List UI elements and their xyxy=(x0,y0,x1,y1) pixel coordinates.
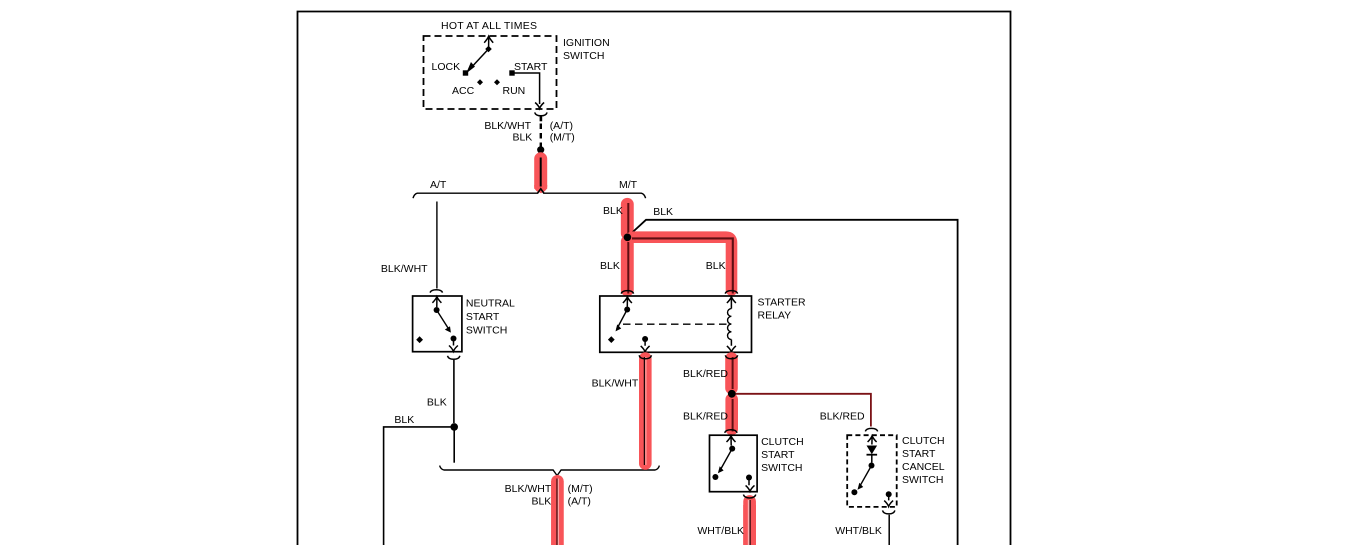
ignition switch wiper arrow to HOT feed xyxy=(469,36,493,69)
relay output wire and arrow down xyxy=(641,339,650,352)
svg-text:BLK/WHT: BLK/WHT xyxy=(505,483,552,495)
connector cup above clutch start switch xyxy=(725,430,737,433)
svg-text:START: START xyxy=(902,448,936,460)
svg-text:BLK/RED: BLK/RED xyxy=(683,410,728,422)
svg-text:CLUTCH: CLUTCH xyxy=(902,435,945,447)
blade arrowhead xyxy=(858,483,864,490)
svg-text:START: START xyxy=(761,449,795,461)
svg-text:START: START xyxy=(514,61,548,73)
output wire arrow down xyxy=(746,478,755,492)
blade end dot xyxy=(851,489,857,495)
connector cup at relay coil terminal xyxy=(725,291,737,294)
wiper arrowhead at LOCK xyxy=(468,64,474,72)
junction dot M/T xyxy=(624,234,632,242)
connector cup below ignition switch xyxy=(535,112,547,115)
svg-text:BLK: BLK xyxy=(427,396,447,408)
wire dashed BLK/WHT below ignition xyxy=(540,124,542,148)
junction dot xyxy=(450,423,458,431)
clutch start switch box xyxy=(710,435,758,492)
svg-text:SWITCH: SWITCH xyxy=(466,325,507,337)
svg-text:WHT/BLK: WHT/BLK xyxy=(835,525,882,537)
relay blade arrowhead xyxy=(616,324,622,331)
junction dot xyxy=(537,146,544,153)
wire red output to starter xyxy=(551,479,564,546)
switch blade xyxy=(437,310,450,331)
blade xyxy=(860,466,872,487)
svg-text:HOT AT ALL TIMES: HOT AT ALL TIMES xyxy=(441,20,537,32)
arrow up inside top xyxy=(432,297,441,307)
svg-text:(M/T): (M/T) xyxy=(550,131,575,143)
bottom terminal dot xyxy=(451,336,457,342)
wire red to starter relay coil xyxy=(632,237,733,293)
svg-text:CANCEL: CANCEL xyxy=(902,461,945,473)
wire BLK/WHT red below relay xyxy=(644,357,646,465)
connector cup below clutch start switch xyxy=(743,495,755,498)
svg-text:RELAY: RELAY xyxy=(758,310,792,322)
wire stub below cup xyxy=(540,116,543,121)
ACC contact xyxy=(477,79,483,85)
svg-text:ACC: ACC xyxy=(452,85,475,97)
svg-text:SWITCH: SWITCH xyxy=(902,474,943,486)
wire BLK/RED jumper to cancel switch xyxy=(736,394,871,427)
arrow up inside xyxy=(727,436,736,446)
wire red highlighted segment below ignition xyxy=(534,158,547,194)
svg-text:LOCK: LOCK xyxy=(432,61,461,73)
svg-text:IGNITION: IGNITION xyxy=(563,37,610,49)
RUN contact xyxy=(494,79,500,85)
relay actuation dashed link xyxy=(623,323,727,325)
clutch start cancel switch box (dashed) xyxy=(847,435,897,507)
svg-text:CLUTCH: CLUTCH xyxy=(761,436,804,448)
connector cup below relay coil xyxy=(725,355,737,359)
blade xyxy=(720,449,732,471)
diode xyxy=(867,446,878,455)
merge brace bottom xyxy=(440,466,660,476)
relay switch arm arrow up xyxy=(623,297,632,307)
border frame xyxy=(298,12,1011,546)
connector cup below relay middle xyxy=(639,355,651,359)
wire WHT/BLK red below clutch switch xyxy=(743,500,756,545)
connector cup above cancel switch xyxy=(865,428,877,431)
wire BLK to left and down xyxy=(384,427,455,545)
wire WHT/BLK below cancel switch xyxy=(888,515,890,545)
blade end dot xyxy=(712,474,718,480)
relay pivot dot xyxy=(624,307,630,313)
svg-text:BLK/WHT: BLK/WHT xyxy=(484,120,531,132)
svg-text:BLK: BLK xyxy=(531,496,551,508)
diamond contact xyxy=(416,336,423,343)
svg-text:START: START xyxy=(466,311,500,323)
svg-text:A/T: A/T xyxy=(430,179,447,191)
wire A/T branch down xyxy=(436,202,438,289)
svg-text:NEUTRAL: NEUTRAL xyxy=(466,297,515,309)
svg-text:BLK: BLK xyxy=(512,131,532,143)
relay diamond contact xyxy=(608,336,615,343)
wire BLK/RED red below relay coil xyxy=(732,357,733,432)
connector cup above neutral start switch xyxy=(430,290,442,293)
connector cup at relay left terminal xyxy=(621,291,633,294)
output terminal dot xyxy=(886,491,892,497)
relay coil xyxy=(727,297,736,309)
svg-text:(M/T): (M/T) xyxy=(568,483,593,495)
relay output terminal dot xyxy=(642,336,648,342)
pivot dot xyxy=(434,307,440,313)
svg-text:M/T: M/T xyxy=(619,179,638,191)
wire BLK thin to right side and down xyxy=(630,220,958,545)
svg-text:WHT/BLK: WHT/BLK xyxy=(697,525,744,537)
svg-text:(A/T): (A/T) xyxy=(550,120,573,132)
LOCK contact xyxy=(463,70,468,75)
neutral start switch box xyxy=(413,296,462,352)
wire to bottom edge with arrow xyxy=(449,339,458,352)
starter relay box xyxy=(600,296,752,352)
wiper pivot dot xyxy=(485,46,492,53)
svg-text:BLK: BLK xyxy=(600,260,620,272)
arrow up inside xyxy=(868,436,877,445)
svg-text:STARTER: STARTER xyxy=(758,297,806,309)
pivot dot xyxy=(729,446,735,452)
relay blade xyxy=(617,310,627,330)
wire M/T red branch down xyxy=(627,203,628,294)
svg-text:RUN: RUN xyxy=(503,85,526,97)
connector cup below neutral switch xyxy=(448,356,460,360)
svg-text:SWITCH: SWITCH xyxy=(761,462,802,474)
svg-text:BLK/RED: BLK/RED xyxy=(820,410,865,422)
connector cup below cancel switch xyxy=(883,510,895,514)
wire BLK below neutral switch xyxy=(453,360,455,423)
svg-text:BLK: BLK xyxy=(394,414,414,426)
pivot dot xyxy=(869,463,875,469)
junction dot BLK/RED xyxy=(728,390,736,398)
START contact xyxy=(509,70,514,75)
split brace A/T M/T xyxy=(413,189,646,198)
ignition switch box (dashed) xyxy=(424,36,557,109)
wire down to merge brace xyxy=(453,427,455,463)
output terminal dot xyxy=(746,475,752,481)
blade arrowhead xyxy=(718,466,724,473)
svg-text:BLK/RED: BLK/RED xyxy=(683,368,728,380)
svg-text:SWITCH: SWITCH xyxy=(563,50,604,62)
svg-text:(A/T): (A/T) xyxy=(568,496,591,508)
svg-text:BLK: BLK xyxy=(706,260,726,272)
svg-text:BLK: BLK xyxy=(603,205,623,217)
arrowhead down at box exit xyxy=(535,103,544,109)
output wire arrow down xyxy=(884,494,893,506)
svg-text:BLK/WHT: BLK/WHT xyxy=(381,263,428,275)
svg-text:BLK/WHT: BLK/WHT xyxy=(592,378,639,390)
wire START output inside box xyxy=(515,73,540,104)
blade arrowhead xyxy=(445,326,451,332)
svg-text:BLK: BLK xyxy=(653,206,673,218)
